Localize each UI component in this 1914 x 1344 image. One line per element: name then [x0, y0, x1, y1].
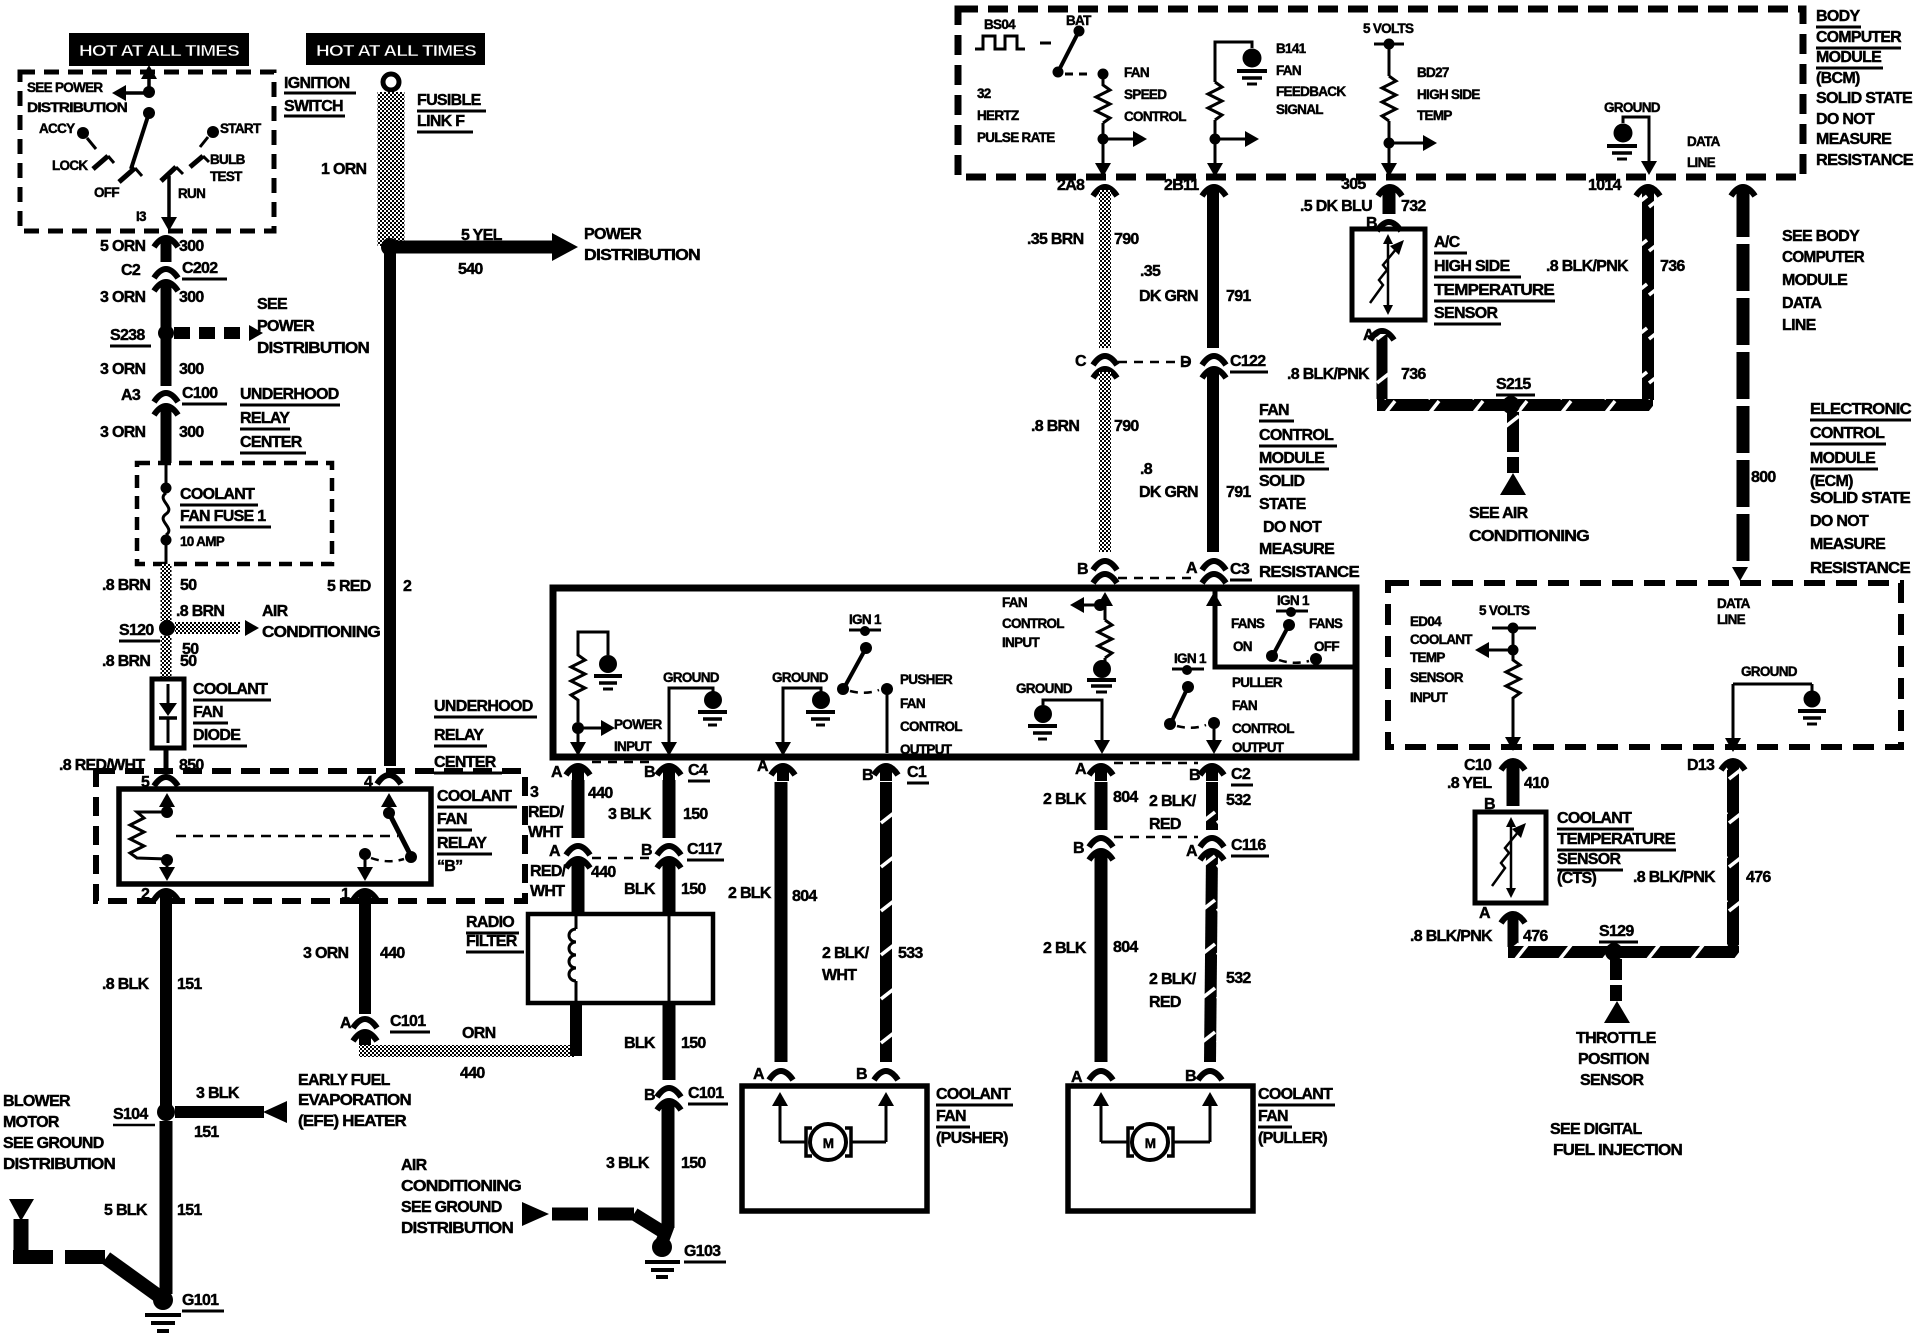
label PULLER FAN CONTROL OUTPUT — [1232, 675, 1294, 755]
svg-text:RED/: RED/ — [530, 863, 567, 880]
fan control input wire 790 arrow in — [1097, 592, 1113, 620]
svg-text:PULLER: PULLER — [1232, 675, 1283, 690]
svg-text:CONTROL: CONTROL — [1259, 427, 1334, 444]
fuse symbol — [161, 463, 172, 564]
wire 532 (2 BLK/RED) puller lower segment — [1149, 854, 1251, 1062]
coolant fan relay B outline (dashed) — [96, 771, 525, 901]
connector C101 pin B — [644, 1085, 728, 1110]
svg-text:FILTER: FILTER — [466, 933, 518, 950]
svg-text:SENSOR: SENSOR — [1557, 851, 1622, 868]
svg-text:IGNITION: IGNITION — [284, 75, 350, 92]
fan speed control resistor — [1096, 74, 1110, 123]
svg-text:533: 533 — [898, 945, 923, 962]
svg-text:BLOWER: BLOWER — [3, 1093, 71, 1110]
svg-text:150: 150 — [681, 1155, 706, 1172]
ECM 5 volts bar and node — [1492, 623, 1536, 651]
svg-text:GROUND: GROUND — [1741, 664, 1798, 679]
node at fusible link bottom — [381, 238, 399, 256]
svg-text:476: 476 — [1523, 928, 1548, 945]
svg-text:SPEED: SPEED — [1124, 87, 1167, 102]
relay pin 2 connector — [154, 891, 178, 900]
puller motor M — [1128, 1124, 1173, 1160]
coolant fan puller pin A connector — [1071, 1069, 1113, 1086]
svg-text:SEE POWER: SEE POWER — [27, 80, 103, 95]
svg-text:A: A — [1363, 327, 1375, 344]
svg-text:305: 305 — [1341, 176, 1366, 193]
svg-text:440: 440 — [591, 864, 616, 881]
svg-text:1 ORN: 1 ORN — [321, 161, 367, 178]
svg-text:CONTROL: CONTROL — [1124, 109, 1186, 124]
module internal ground (power input branch) — [594, 655, 622, 689]
relay switch blade — [383, 807, 417, 863]
wire 151 (3 BLK) feed from EFE heater — [175, 1085, 287, 1141]
svg-text:D13: D13 — [1687, 757, 1715, 774]
svg-text:.8 BRN: .8 BRN — [1031, 418, 1079, 435]
svg-text:5 VOLTS: 5 VOLTS — [1479, 603, 1530, 618]
contact START — [200, 121, 262, 147]
label FAN CONTROL INPUT — [1002, 595, 1064, 650]
label UNDERHOOD RELAY CENTER (relay) — [434, 698, 537, 773]
ignition switch blade — [131, 113, 149, 169]
svg-text:OUTPUT: OUTPUT — [900, 742, 953, 757]
label COOLANT FAN FUSE 1 10 AMP — [180, 486, 271, 549]
svg-text:A: A — [753, 1066, 765, 1083]
body computer module box (dashed) — [958, 9, 1803, 177]
connector C2 link (dashed) — [1114, 762, 1198, 765]
svg-text:COOLANT: COOLANT — [1557, 810, 1632, 827]
svg-text:ED04: ED04 — [1410, 614, 1442, 629]
svg-text:A: A — [1075, 761, 1087, 778]
ignition switch label — [284, 75, 356, 116]
label FAN SPEED CONTROL — [1124, 65, 1186, 124]
wire 300 (3 ORN) segment — [161, 285, 172, 328]
ignition switch internals: feed arrow up — [141, 65, 157, 93]
label 32 HERTZ PULSE RATE — [977, 86, 1055, 145]
svg-text:440: 440 — [380, 945, 405, 962]
svg-text:AIR: AIR — [262, 603, 289, 620]
svg-text:2 BLK: 2 BLK — [728, 885, 772, 902]
svg-text:476: 476 — [1746, 869, 1771, 886]
label PUSHER FAN CONTROL OUTPUT — [900, 672, 962, 757]
pin 2A8 connector — [1093, 187, 1117, 196]
svg-text:HOT AT ALL TIMES: HOT AT ALL TIMES — [79, 43, 240, 60]
svg-text:ON: ON — [1233, 639, 1252, 654]
svg-text:32: 32 — [977, 86, 991, 101]
svg-text:GROUND: GROUND — [663, 670, 720, 685]
wire 300 segment to fuse — [161, 409, 172, 463]
svg-text:TEST: TEST — [210, 169, 243, 184]
svg-text:M: M — [1145, 1136, 1156, 1151]
svg-text:SEE GROUND: SEE GROUND — [401, 1199, 502, 1216]
module pin B connector (C3) — [1077, 561, 1117, 583]
fan speed control node — [1098, 69, 1109, 80]
svg-text:HOT AT ALL TIMES: HOT AT ALL TIMES — [316, 43, 477, 60]
svg-text:.8 BLK: .8 BLK — [102, 976, 150, 993]
svg-text:300: 300 — [179, 289, 204, 306]
svg-text:(BCM): (BCM) — [1816, 70, 1860, 87]
svg-text:FAN: FAN — [1276, 63, 1301, 78]
pin D13 arrow — [1725, 684, 1741, 752]
svg-text:DISTRIBUTION: DISTRIBUTION — [27, 100, 127, 115]
svg-text:THROTTLE: THROTTLE — [1576, 1030, 1657, 1047]
svg-text:3 ORN: 3 ORN — [100, 424, 146, 441]
svg-text:3 ORN: 3 ORN — [100, 289, 146, 306]
puller output arrow to pin B — [1206, 740, 1222, 754]
svg-text:S215: S215 — [1496, 376, 1531, 393]
module pin A connector C3 — [1186, 560, 1252, 583]
connector C116 link (dashed) — [1114, 836, 1198, 839]
svg-text:OFF: OFF — [1314, 639, 1339, 654]
svg-text:BLK: BLK — [624, 881, 656, 898]
pusher motor M — [806, 1124, 851, 1160]
contact BULB TEST — [190, 152, 246, 184]
svg-text:MOTOR: MOTOR — [3, 1114, 60, 1131]
svg-text:B: B — [644, 764, 655, 781]
svg-text:“B”: “B” — [437, 858, 462, 875]
svg-text:A: A — [1186, 560, 1198, 577]
module pin B connector C4 — [644, 762, 710, 781]
svg-text:B: B — [641, 842, 652, 859]
svg-text:804: 804 — [792, 888, 817, 905]
svg-text:150: 150 — [681, 1035, 706, 1052]
svg-text:2 BLK/: 2 BLK/ — [1149, 793, 1197, 810]
wire 150 (BLK) segment below radio filter — [624, 1003, 706, 1080]
module pin B connector C2 — [1189, 766, 1253, 785]
text POWER DISTRIBUTION (540) — [584, 226, 700, 264]
relay switch contact node — [359, 848, 404, 861]
svg-text:COMPUTER: COMPUTER — [1782, 249, 1865, 266]
svg-text:GROUND: GROUND — [1016, 681, 1073, 696]
svg-text:804: 804 — [1113, 789, 1138, 806]
label FANS OFF — [1309, 616, 1343, 654]
coolant fan pusher pin B connector — [856, 1066, 898, 1083]
svg-text:.35: .35 — [1140, 263, 1161, 280]
pin I3 wire with arrow — [136, 176, 177, 231]
svg-text:COMPUTER: COMPUTER — [1816, 29, 1902, 46]
svg-text:PULSE RATE: PULSE RATE — [977, 130, 1055, 145]
svg-text:.8 BLK/PNK: .8 BLK/PNK — [1633, 869, 1716, 886]
svg-text:10 AMP: 10 AMP — [180, 534, 225, 549]
ECM CTS resistor — [1506, 655, 1520, 738]
ground 2 arrow to pin A — [775, 742, 791, 756]
svg-text:C101: C101 — [390, 1013, 426, 1030]
wire 50 (.8 BRN) shaded segment — [161, 564, 172, 621]
ground 3 wire elbow to pin A — [1043, 700, 1102, 742]
svg-text:G101: G101 — [182, 1292, 219, 1309]
svg-text:DISTRIBUTION: DISTRIBUTION — [584, 247, 700, 264]
wire 791 arrow into module — [1206, 592, 1222, 606]
wire 440 stub below radio filter — [570, 1003, 582, 1056]
svg-text:RELAY: RELAY — [240, 410, 290, 427]
fan control module box — [553, 588, 1356, 757]
svg-text:S104: S104 — [113, 1106, 148, 1123]
module pin B connector C1 — [862, 764, 929, 784]
svg-text:C10: C10 — [1464, 757, 1492, 774]
module internal resistor (power input) — [571, 632, 608, 722]
svg-text:C1: C1 — [907, 764, 927, 781]
wire 150 (3 BLK) segment to G103 — [606, 1104, 706, 1228]
svg-text:5: 5 — [141, 774, 150, 791]
svg-text:SENSOR: SENSOR — [1580, 1072, 1645, 1089]
pin 305 connector — [1378, 187, 1402, 196]
svg-text:BS04: BS04 — [984, 17, 1016, 32]
arrow to see power distribution — [112, 85, 149, 101]
fans on/off ign 1 switch — [1266, 593, 1322, 665]
coolant temp sensor input node and arrow — [1475, 642, 1519, 658]
svg-text:C3: C3 — [1230, 561, 1250, 578]
svg-text:LINE: LINE — [1687, 155, 1716, 170]
svg-text:C117: C117 — [687, 841, 722, 858]
svg-text:FANS: FANS — [1231, 616, 1265, 631]
wire 804 (2 BLK) puller lower segment — [1043, 854, 1138, 1062]
svg-text:.5 DK BLU: .5 DK BLU — [1300, 198, 1372, 215]
svg-text:TEMPERATURE: TEMPERATURE — [1434, 282, 1555, 299]
svg-text:RED/: RED/ — [528, 804, 565, 821]
wire 804 (2 BLK) puller upper segment — [1043, 782, 1138, 830]
svg-text:DO NOT: DO NOT — [1263, 519, 1322, 536]
text BLOWER MOTOR SEE GROUND DISTRIBUTION — [3, 1093, 115, 1173]
connector C122 pin C — [1075, 353, 1117, 378]
svg-text:5 ORN: 5 ORN — [100, 238, 146, 255]
svg-text:790: 790 — [1114, 231, 1139, 248]
svg-text:151: 151 — [194, 1124, 219, 1141]
ground 3 arrow to pin A — [1094, 740, 1110, 754]
svg-text:.8 BRN: .8 BRN — [102, 653, 150, 670]
svg-text:PUSHER: PUSHER — [900, 672, 953, 687]
diode symbol — [159, 684, 177, 743]
svg-text:2 BLK/: 2 BLK/ — [822, 945, 870, 962]
label RADIO FILTER — [466, 914, 524, 952]
svg-text:2 BLK: 2 BLK — [1043, 940, 1087, 957]
junction node 2 — [143, 107, 155, 119]
svg-text:3: 3 — [530, 784, 539, 801]
svg-text:D: D — [1180, 354, 1191, 371]
svg-text:C2: C2 — [121, 262, 141, 279]
fan feedback resistor — [1208, 82, 1222, 120]
splice S129 — [1599, 923, 1638, 961]
svg-text:I3: I3 — [136, 209, 147, 224]
svg-text:1: 1 — [341, 886, 350, 903]
label DATA LINE (ECM) — [1717, 596, 1751, 627]
svg-text:FUSIBLE: FUSIBLE — [417, 92, 482, 109]
svg-text:MEASURE: MEASURE — [1259, 541, 1335, 558]
svg-text:C: C — [1075, 353, 1087, 370]
pin 2B11 arrow — [1164, 139, 1223, 194]
label COOLANT FAN DIODE — [193, 681, 271, 746]
svg-text:ACCY: ACCY — [39, 121, 75, 136]
svg-text:540: 540 — [458, 261, 483, 278]
svg-text:.8 YEL: .8 YEL — [1447, 775, 1492, 792]
svg-text:S129: S129 — [1599, 923, 1634, 940]
svg-text:RESISTANCE: RESISTANCE — [1816, 152, 1914, 169]
wire 791 (.35 DK GRN) segment — [1139, 190, 1251, 348]
svg-text:C101: C101 — [688, 1085, 724, 1102]
puller ign 1 switch — [1164, 651, 1220, 742]
svg-text:DATA: DATA — [1782, 295, 1822, 312]
svg-text:3 BLK: 3 BLK — [608, 806, 652, 823]
BD27 output node and arrow — [1384, 121, 1438, 151]
svg-text:MODULE: MODULE — [1259, 450, 1325, 467]
text SEE DIGITAL FUEL INJECTION — [1550, 1121, 1682, 1159]
power input output arrow to pin A — [570, 730, 586, 756]
svg-text:B: B — [1185, 1068, 1196, 1085]
svg-text:CONDITIONING: CONDITIONING — [262, 624, 380, 641]
svg-text:FAN: FAN — [437, 811, 467, 828]
svg-text:MODULE: MODULE — [1810, 450, 1876, 467]
fan feedback output node and arrow — [1210, 120, 1260, 147]
connector C117 pin B — [641, 841, 724, 868]
svg-text:RELAY: RELAY — [437, 835, 487, 852]
svg-text:FANS: FANS — [1309, 616, 1343, 631]
pusher ign 1 switch — [837, 612, 893, 753]
svg-text:FAN: FAN — [1002, 595, 1027, 610]
svg-text:C2: C2 — [1231, 766, 1251, 783]
svg-text:CONTROL: CONTROL — [1810, 425, 1885, 442]
svg-text:SWITCH: SWITCH — [284, 98, 343, 115]
svg-text:DO NOT: DO NOT — [1810, 513, 1869, 530]
wire 440 (3 RED/WHT) module pin A segment — [528, 780, 613, 841]
svg-text:WHT: WHT — [528, 824, 563, 841]
connector C101 pin A — [340, 1013, 430, 1041]
CTS pin A connector — [1479, 905, 1525, 923]
wire 790 (.35 BRN) shaded segment — [1027, 190, 1139, 348]
label UNDERHOOD RELAY CENTER (C100) — [240, 386, 340, 453]
svg-text:151: 151 — [177, 976, 202, 993]
fan feedback elbow and ground — [1215, 42, 1267, 84]
svg-text:COOLANT: COOLANT — [1410, 632, 1473, 647]
text SEE POWER DISTRIBUTION (ignition) — [27, 80, 127, 115]
svg-text:IGN 1: IGN 1 — [1174, 651, 1207, 666]
A/C sensor thermistor symbol — [1370, 234, 1404, 315]
wire 800 data line (dashed) — [1732, 190, 1776, 581]
svg-text:POWER: POWER — [257, 318, 315, 335]
module pin A connector (C4) — [551, 764, 590, 781]
pin 2A8 arrow — [1057, 139, 1111, 194]
svg-text:.8 BLK/PNK: .8 BLK/PNK — [1546, 258, 1629, 275]
module pin A connector (C2) — [1075, 761, 1113, 781]
ground 4 symbol (fan control input) — [1087, 658, 1116, 692]
svg-text:(CTS): (CTS) — [1557, 870, 1597, 887]
radio filter inductor — [569, 914, 576, 1003]
connector C1 link (dashed) — [796, 758, 872, 761]
wire 151 (5 BLK) segment — [104, 1121, 202, 1294]
svg-text:SEE AIR: SEE AIR — [1469, 505, 1529, 522]
text SEE AIR CONDITIONING — [1469, 505, 1589, 545]
svg-text:CONTROL: CONTROL — [1002, 616, 1064, 631]
svg-text:MEASURE: MEASURE — [1816, 131, 1892, 148]
A/C high side temperature sensor box — [1352, 229, 1425, 320]
contact ACCY — [39, 121, 96, 149]
svg-text:2A8: 2A8 — [1057, 177, 1085, 194]
text AIR CONDITIONING SEE GROUND DISTRIBUTION — [401, 1157, 521, 1237]
splice S120 — [119, 620, 175, 641]
coolant fan diode box — [152, 679, 184, 748]
wire 476 (.8 BLK/PNK) from pin D13 — [1633, 764, 1771, 948]
wire 736 (.8 BLK/PNK) from pin 1014 — [1546, 190, 1685, 400]
pin C10 arrow — [1505, 737, 1521, 751]
svg-text:BD27: BD27 — [1417, 65, 1449, 80]
relay actuation dashed link — [176, 835, 398, 838]
svg-text:C116: C116 — [1231, 837, 1266, 854]
svg-text:G103: G103 — [684, 1243, 721, 1260]
svg-text:DATA: DATA — [1687, 134, 1721, 149]
svg-text:.8 BLK/PNK: .8 BLK/PNK — [1287, 366, 1370, 383]
svg-text:SEE GROUND: SEE GROUND — [3, 1135, 104, 1152]
text EARLY FUEL EVAPORATION (EFE) HEATER — [298, 1072, 411, 1130]
svg-text:UNDERHOOD: UNDERHOOD — [434, 698, 533, 715]
wire 2 (5 RED) segment — [327, 250, 412, 766]
wire 540 (5 YEL) feed arrow to power distribution — [390, 227, 578, 278]
svg-text:MODULE: MODULE — [1816, 49, 1882, 66]
svg-text:(ECM): (ECM) — [1810, 473, 1853, 490]
label BODY COMPUTER MODULE (BCM) — [1816, 8, 1914, 169]
svg-text:A: A — [1479, 905, 1491, 922]
blower motor ground feed arrow — [9, 1199, 34, 1221]
throttle position sensor feed arrow — [1604, 959, 1630, 1023]
svg-text:EARLY FUEL: EARLY FUEL — [298, 1072, 391, 1089]
svg-text:EVAPORATION: EVAPORATION — [298, 1092, 411, 1109]
connector C116 pin B — [1073, 838, 1113, 860]
svg-text:B: B — [1073, 840, 1084, 857]
connector C117 pin A — [549, 843, 590, 868]
svg-text:A3: A3 — [121, 387, 141, 404]
svg-text:.8 BLK/PNK: .8 BLK/PNK — [1410, 928, 1493, 945]
A/C sensor pin B connector — [1366, 215, 1401, 232]
relay pin 1 connector — [353, 891, 377, 900]
svg-text:300: 300 — [179, 424, 204, 441]
relay switch input arrow — [381, 793, 397, 812]
svg-text:790: 790 — [1114, 418, 1139, 435]
svg-text:FAN: FAN — [1258, 1108, 1288, 1125]
svg-text:INPUT: INPUT — [1002, 635, 1040, 650]
svg-text:532: 532 — [1226, 970, 1251, 987]
svg-text:791: 791 — [1226, 484, 1251, 501]
svg-text:FAN: FAN — [1124, 65, 1149, 80]
module pin A connector (C1) — [757, 758, 795, 781]
svg-text:INPUT: INPUT — [1410, 690, 1448, 705]
svg-text:C202: C202 — [182, 260, 218, 277]
svg-text:C100: C100 — [182, 385, 218, 402]
svg-text:.8: .8 — [1140, 461, 1153, 478]
see air conditioning feed arrow — [1500, 412, 1526, 495]
relay switch output arrow to pin 1 — [341, 858, 373, 903]
svg-text:532: 532 — [1226, 792, 1251, 809]
puller motor input arrows — [1093, 1092, 1218, 1142]
svg-text:CONDITIONING: CONDITIONING — [401, 1178, 521, 1195]
svg-text:300: 300 — [179, 238, 204, 255]
power input node and arrow — [572, 717, 662, 754]
relay coil input arrow — [159, 793, 175, 811]
connector C122 link (dashed) — [1118, 361, 1194, 364]
svg-text:150: 150 — [681, 881, 706, 898]
svg-text:GROUND: GROUND — [1604, 100, 1661, 115]
svg-text:AIR: AIR — [401, 1157, 428, 1174]
wire 804 (2 BLK) pusher segment — [781, 782, 817, 1062]
svg-text:SEE BODY: SEE BODY — [1782, 228, 1860, 245]
label SEE BODY COMPUTER MODULE DATA LINE — [1782, 228, 1865, 334]
relay pin 4 connector — [364, 774, 401, 791]
svg-text:POWER: POWER — [584, 226, 642, 243]
svg-text:2 BLK/: 2 BLK/ — [1149, 971, 1197, 988]
connector C116 pin A — [1186, 837, 1269, 860]
label COOLANT TEMPERATURE SENSOR (CTS) — [1557, 810, 1676, 887]
wire 440 (RED/WHT) segment to radio filter — [530, 862, 616, 916]
svg-text:5 VOLTS: 5 VOLTS — [1363, 21, 1414, 36]
label A/C HIGH SIDE TEMPERATURE SENSOR — [1434, 234, 1555, 324]
svg-text:151: 151 — [177, 1202, 202, 1219]
svg-text:2: 2 — [403, 578, 412, 595]
wire 736 horizontal segment to S215 — [1377, 399, 1653, 411]
